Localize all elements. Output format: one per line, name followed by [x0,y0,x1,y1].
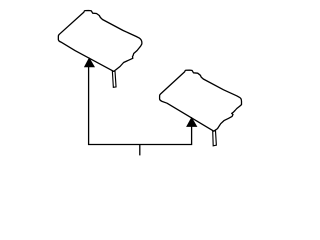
connector polyline [89,67,192,145]
arrowhead 2 [186,117,197,127]
card 1 pin tail [112,71,116,87]
arrowhead 1 [84,57,95,67]
card 1 (upper left) body outline [58,11,142,72]
card 2 pin tail [213,130,217,146]
card 2 (lower right) body outline [160,70,242,131]
center stub [139,145,141,156]
